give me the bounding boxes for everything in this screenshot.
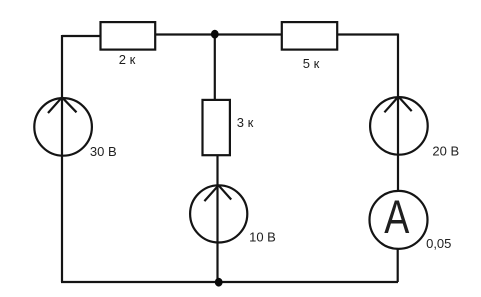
svg-text:3 к: 3 к: [237, 115, 254, 130]
svg-text:0,05: 0,05: [426, 236, 451, 251]
wire top right (R2 to right corner): [337, 33, 398, 35]
source E3 arrow: [384, 97, 411, 113]
svg-text:10 В: 10 В: [249, 230, 276, 245]
wire middle vertical lower (R3 through source 10 В to bottom): [216, 155, 218, 282]
wire left vertical (through source 30 В): [61, 35, 63, 282]
resistor R2 5 к: [282, 22, 337, 49]
source E2 10 В circle: [190, 185, 247, 242]
wire right vertical upper (through source 20 В to ammeter): [397, 34, 399, 193]
wire middle vertical upper (node to R3): [214, 35, 216, 101]
svg-text:A: A: [384, 191, 410, 244]
svg-text:20 В: 20 В: [432, 144, 459, 159]
node top junction dot: [211, 30, 219, 39]
ammeter A circle: [370, 191, 428, 249]
svg-text:2 к: 2 к: [119, 52, 136, 67]
resistor R3 3 к: [203, 100, 230, 155]
resistor R1 2 к: [101, 22, 156, 49]
source E1 arrow: [48, 97, 77, 113]
source E2 arrow: [204, 185, 231, 201]
wire top middle (R1 to R2 through node): [155, 33, 282, 35]
source E1 30 В circle: [34, 98, 92, 156]
source E3 20 В circle: [370, 97, 428, 155]
node bottom junction dot: [215, 278, 223, 287]
wire bottom: [61, 281, 398, 283]
svg-text:30 В: 30 В: [90, 144, 117, 159]
svg-text:5 к: 5 к: [303, 56, 320, 71]
wire right vertical lower (ammeter to bottom): [397, 248, 399, 282]
wire top-left (from left corner to R1): [62, 35, 101, 37]
